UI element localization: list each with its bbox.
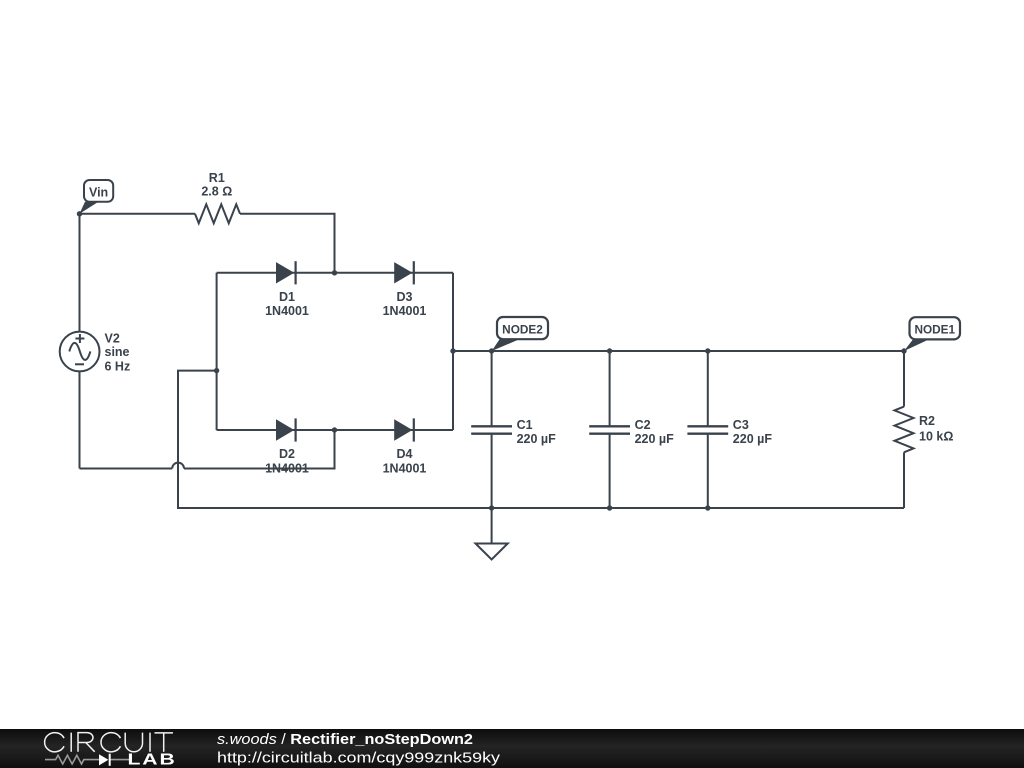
svg-text:D1: D1	[279, 290, 295, 304]
svg-text:1N4001: 1N4001	[265, 461, 309, 475]
svg-text:220 µF: 220 µF	[517, 432, 557, 446]
svg-text:sine: sine	[105, 345, 130, 359]
svg-text:10 kΩ: 10 kΩ	[919, 430, 953, 444]
svg-text:NODE1: NODE1	[914, 323, 955, 337]
svg-text:R1: R1	[209, 171, 225, 185]
svg-text:C1: C1	[517, 418, 533, 432]
svg-text:C3: C3	[733, 418, 749, 432]
svg-text:Vin: Vin	[89, 186, 108, 200]
svg-text:6 Hz: 6 Hz	[105, 360, 131, 374]
svg-text:1N4001: 1N4001	[383, 304, 427, 318]
svg-text:s.woods / Rectifier_noStepDown: s.woods / Rectifier_noStepDown2	[217, 731, 473, 748]
svg-text:D4: D4	[397, 447, 413, 461]
svg-text:D2: D2	[279, 447, 295, 461]
svg-text:2.8 Ω: 2.8 Ω	[201, 185, 232, 199]
svg-text:C2: C2	[635, 418, 651, 432]
svg-text:NODE2: NODE2	[502, 323, 543, 337]
svg-text:220 µF: 220 µF	[733, 432, 773, 446]
svg-text:1N4001: 1N4001	[383, 461, 427, 475]
svg-text:1N4001: 1N4001	[265, 304, 309, 318]
svg-text:D3: D3	[397, 290, 413, 304]
svg-text:http://circuitlab.com/cqy999zn: http://circuitlab.com/cqy999znk59ky	[217, 750, 501, 767]
svg-text:V2: V2	[105, 331, 120, 345]
svg-text:220 µF: 220 µF	[635, 432, 675, 446]
svg-text:LAB: LAB	[128, 750, 177, 768]
svg-text:R2: R2	[919, 414, 935, 428]
